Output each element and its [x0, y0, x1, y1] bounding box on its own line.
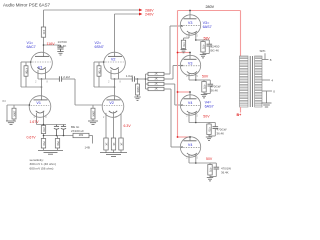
svg-text:1K: 1K	[154, 77, 157, 81]
wire V4a plate lead	[189, 92, 191, 99]
svg-text:SPK: SPK	[260, 49, 266, 53]
wire V3a plate lead	[189, 11, 191, 19]
wire V1 plate resistor feed	[43, 10, 45, 27]
wire secondary tap 4 ohm	[262, 79, 270, 81]
ground V1b cathode	[38, 149, 63, 151]
svg-text:270: 270	[42, 127, 46, 132]
resistor R13 grid stopper	[148, 77, 164, 80]
wire V1a grid	[21, 61, 31, 63]
svg-text:V3: V3	[188, 62, 193, 66]
svg-text:470K: 470K	[25, 68, 29, 74]
capacitor C7 V3b bypass	[204, 79, 210, 81]
svg-text:36.4K: 36.4K	[211, 89, 219, 93]
resistor R14 grid stopper	[148, 82, 164, 85]
svg-text:6AS7: 6AS7	[205, 105, 214, 109]
svg-text:50V: 50V	[206, 157, 213, 161]
wire B+ rail 2 (V2 plate supply)	[115, 13, 140, 15]
node B+ 240V arrow	[139, 13, 142, 16]
resistor R1 24K (V1a plate load)	[41, 27, 45, 37]
wire V2a grid leak branch	[93, 62, 95, 87]
resistor R6 282	[73, 133, 89, 137]
triode V4b (6AS7 section)	[180, 137, 200, 157]
svg-text:0.67V: 0.67V	[27, 136, 37, 140]
resistor R17 V3a cathode	[202, 40, 204, 42]
wire R14 to V4a grid	[164, 83, 175, 85]
wire R13 to V3b grid	[164, 78, 173, 80]
wire V3a right cathode junction	[196, 39, 203, 41]
svg-text:1K: 1K	[154, 82, 157, 86]
svg-text:V2: V2	[111, 58, 116, 62]
wire V4b cathode junction	[189, 162, 210, 164]
svg-text:470: 470	[203, 85, 207, 90]
capacitor C6 V3a bypass	[203, 39, 209, 41]
svg-text:600 mV (56 ohm): 600 mV (56 ohm)	[30, 166, 54, 170]
wire red branch V3b plate	[178, 52, 191, 54]
wire secondary tap 8 ohm	[262, 59, 269, 61]
resistor R3 input 100K	[12, 108, 16, 119]
svg-text:240V: 240V	[145, 13, 154, 17]
svg-text:BG 4K: BG 4K	[211, 49, 220, 53]
svg-text:100K: 100K	[92, 110, 96, 116]
transformer T1 primary winding	[240, 56, 249, 107]
wire to ground bar	[105, 150, 107, 153]
svg-text:750: 750	[56, 141, 60, 146]
wire 0.67V node	[43, 134, 45, 139]
wire V4a cathode junction	[189, 122, 209, 124]
wire R6 to tap	[89, 135, 93, 137]
wire R12 to V3a grid	[164, 73, 170, 75]
svg-text:1K: 1K	[120, 142, 124, 145]
wire grid bus vertical	[145, 74, 147, 89]
resistor R16 V3a cathode	[181, 40, 185, 48]
capacitor C9 V4b bypass	[210, 162, 216, 164]
wire V4a cathode pins	[188, 113, 190, 123]
wire 116V node	[43, 37, 45, 57]
capacitor C3 100uF	[56, 125, 58, 127]
wire OPT primary bottom to B+	[240, 107, 242, 113]
ground below C2	[57, 51, 63, 53]
svg-text:B+: B+	[237, 113, 242, 117]
ground V4a cathode	[206, 136, 212, 138]
wire red branch V4a plate	[178, 91, 191, 93]
svg-text:1K: 1K	[112, 142, 116, 145]
svg-text:V1: V1	[36, 101, 41, 105]
wire V3b plate lead	[189, 53, 191, 60]
wire V3a cathode pins	[188, 33, 190, 38]
svg-text:36.4K: 36.4K	[217, 131, 225, 135]
resistor R12 grid stopper	[148, 72, 164, 75]
triode V3a (6AS7 section)	[180, 15, 200, 35]
svg-text:50V: 50V	[202, 75, 209, 79]
svg-text:V3: V3	[188, 21, 193, 25]
svg-text:1K: 1K	[154, 87, 157, 91]
svg-text:750: 750	[42, 141, 46, 146]
wire V1b plate lead	[41, 79, 43, 100]
ground R16	[183, 48, 185, 49]
svg-text:1.0uf: 1.0uf	[126, 74, 133, 78]
svg-text:1.67V: 1.67V	[30, 120, 40, 124]
wire cathode node 1.67V	[37, 124, 67, 126]
capacitor C4 100uF	[63, 125, 65, 127]
svg-text:282: 282	[79, 133, 84, 137]
svg-text:2X100 uF: 2X100 uF	[71, 129, 84, 133]
resistor R19 V3b cathode	[203, 80, 205, 82]
svg-text:6AS7: 6AS7	[203, 25, 212, 29]
svg-text:220K: 220K	[136, 86, 140, 92]
svg-text:50V: 50V	[203, 115, 210, 119]
triode V2a (upper)	[104, 52, 126, 74]
ground V3a cathode	[200, 54, 206, 56]
capacitor C8 V4a bypass	[209, 122, 215, 124]
wire red bus top to OPT	[178, 10, 241, 12]
svg-text:V2: V2	[109, 101, 114, 105]
resistor R19 output grid leak	[137, 79, 139, 84]
ground V3b cathode	[201, 94, 207, 96]
resistor R15 grid stopper	[148, 87, 164, 90]
resistor R4a V1b cathode upper	[41, 126, 45, 134]
svg-text:470K: 470K	[98, 68, 102, 74]
wire stage2 output node	[111, 78, 132, 80]
wire input shunt	[6, 105, 8, 121]
wire to V2b plate	[94, 86, 115, 88]
wire to V1b plate	[21, 86, 42, 88]
resistor R9 V2b cathode	[104, 138, 108, 150]
ground V2b grid	[88, 120, 98, 122]
resistor R8 V2b grid leak	[92, 105, 94, 108]
triode V3b (6AS7 section)	[180, 55, 200, 75]
svg-text:100K: 100K	[13, 110, 17, 116]
wire V3a left cathode to R16	[184, 37, 190, 39]
ground output grid leak	[134, 96, 140, 98]
wire stage1 output node	[38, 78, 59, 80]
ground secondary	[262, 102, 272, 104]
wire C5 to grid bus	[135, 78, 146, 80]
triode V1a (upper)	[31, 52, 53, 74]
svg-text:V4: V4	[188, 143, 193, 147]
wire V2a grid	[94, 61, 104, 63]
resistor R5 V1b cathode	[55, 139, 59, 149]
ground input	[13, 119, 15, 121]
svg-text:V1: V1	[38, 65, 43, 69]
svg-text:470: 470	[202, 45, 206, 50]
transformer T1 core	[249, 56, 251, 107]
wire V1a cathode pins	[37, 70, 39, 79]
resistor R4 V1b cathode	[41, 139, 45, 149]
svg-text:470: 470	[209, 168, 213, 173]
wire OPT primary top feed	[240, 11, 242, 57]
resistor R23 V4b cathode	[209, 163, 211, 165]
wire V1b cathode pins	[36, 113, 38, 125]
wire V4b cathode pins	[188, 155, 190, 163]
svg-text:280V: 280V	[206, 5, 215, 9]
triode V1b (lower)	[29, 96, 51, 118]
capacitor C2 node bypass	[60, 45, 62, 47]
ground V4b cathode	[207, 177, 213, 179]
resistor R2 V1a grid leak	[24, 66, 28, 76]
svg-text:36.4K: 36.4K	[221, 170, 229, 174]
resistor R11 V2b cathode	[119, 138, 123, 150]
wire input	[7, 104, 29, 106]
wire V2a cathode pins	[110, 70, 112, 79]
wire red plate bus	[177, 11, 179, 138]
svg-text:6AC7: 6AC7	[27, 45, 36, 49]
wire R15 to V4b grid	[164, 88, 171, 90]
wire B+ rail 1 (V1 plate supply)	[44, 9, 140, 11]
wire resistor bottoms	[43, 148, 45, 150]
wire red branch V4b plate	[178, 136, 191, 138]
svg-text:6.3V: 6.3V	[124, 124, 132, 128]
svg-text:Audio Mirror PSE 6AS7: Audio Mirror PSE 6AS7	[3, 2, 51, 7]
wire V2b cathode pins	[105, 113, 107, 138]
svg-text:IN: IN	[3, 99, 6, 103]
node B+ 288V arrow	[139, 9, 142, 12]
resistor R7 V2a grid leak	[97, 66, 101, 76]
svg-text:V4: V4	[188, 101, 193, 105]
svg-text:1K: 1K	[105, 142, 109, 145]
wire C1 to V2b grid	[62, 78, 75, 80]
wire secondary tap 0	[262, 90, 272, 92]
capacitor C5 coupling 1.0uf	[131, 76, 133, 81]
svg-text:470: 470	[208, 127, 212, 132]
wire V3b cathode pins	[188, 73, 190, 80]
ground V2b cathode	[100, 152, 127, 154]
resistor R10 V2b cathode	[111, 138, 115, 150]
wire V4b plate lead	[189, 137, 191, 141]
wire V2b plate lead	[114, 79, 116, 100]
svg-text:6SN7: 6SN7	[95, 45, 104, 49]
resistor R21 V4a cathode	[208, 123, 210, 125]
svg-text:24K: 24K	[42, 30, 46, 35]
wire V1a grid leak branch	[20, 62, 22, 87]
svg-text:14B: 14B	[85, 146, 90, 150]
triode V2b (lower)	[102, 96, 124, 118]
triode V4a (6AS7 section)	[180, 95, 200, 115]
svg-text:1K: 1K	[154, 72, 157, 76]
transformer T1 secondary winding	[255, 56, 262, 107]
svg-text:BG 4K: BG 4K	[58, 44, 67, 48]
svg-text:470: 470	[182, 42, 186, 47]
svg-text:116V: 116V	[47, 42, 56, 46]
wire V3b cathode junction	[189, 79, 204, 81]
wire stopper left leads	[146, 73, 149, 75]
capacitor C1 coupling 2.2uf	[58, 76, 60, 81]
